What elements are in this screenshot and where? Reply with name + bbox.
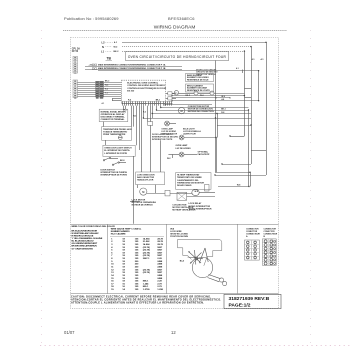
- svg-text:2498: 2498: [157, 274, 163, 277]
- svg-text:TANDA A FLOOR: TANDA A FLOOR: [137, 179, 154, 182]
- svg-text:LUZ DE HORNO: LUZ DE HORNO: [176, 148, 192, 150]
- wire N to right bus: [122, 46, 251, 48]
- svg-text:2498: 2498: [157, 260, 163, 263]
- title rule: [63, 30, 287, 32]
- svg-text:(25-78): (25-78): [143, 252, 150, 254]
- relay board note box: [99, 109, 128, 121]
- svg-text:DE AIR CHAUD: DE AIR CHAUD: [177, 184, 192, 187]
- svg-text:INTERRUPTOR DE PUERTA: INTERRUPTOR DE PUERTA: [101, 171, 128, 174]
- latch arrowheads: [188, 251, 190, 253]
- door switch SW1 symbol: [105, 158, 110, 160]
- svg-text:BK BLACK/NEGRO/NOIR: BK BLACK/NEGRO/NOIR: [72, 229, 98, 232]
- harness wires to EOC board: [104, 82, 122, 84]
- svg-text:THERMOSTAT DE MONITOR: THERMOSTAT DE MONITOR: [177, 181, 204, 184]
- svg-text:MOTEUR DE CONVECTION: MOTEUR DE CONVECTION: [188, 111, 214, 113]
- latch arm lines: [189, 252, 202, 264]
- svg-text:BK-1: BK-1: [156, 100, 160, 102]
- bus drop at x258: [258, 71, 260, 101]
- svg-text:COOLING FAN: COOLING FAN: [172, 203, 186, 206]
- broil element label box: [186, 84, 214, 92]
- inline connector bank column 2: [100, 81, 104, 97]
- svg-text:2498: 2498: [157, 277, 163, 280]
- wire stub box2 to box3: [105, 140, 107, 145]
- svg-text:Y YELLOW/AMARILLO/JAUNE: Y YELLOW/AMARILLO/JAUNE: [72, 237, 103, 240]
- svg-text:5857: 5857: [157, 250, 163, 252]
- svg-text:5857: 5857: [157, 269, 163, 271]
- wires lower middle verticals: [141, 156, 143, 172]
- svg-text:14-964: 14-964: [143, 237, 150, 240]
- harness wires from CPL strip: [78, 82, 96, 84]
- revision info box: [224, 294, 281, 308]
- svg-text:OPTIONAL: OPTIONAL: [198, 151, 209, 154]
- svg-text:WIRING DIAGRAM: WIRING DIAGRAM: [154, 25, 196, 31]
- svg-text:BAJO SELECTOR: BAJO SELECTOR: [137, 176, 155, 179]
- wire neutral run to element circuit: [98, 70, 259, 72]
- svg-text:(25-78): (25-78): [143, 250, 150, 252]
- svg-text:CALENTAMIENTO DEL: CALENTAMIENTO DEL: [177, 179, 199, 182]
- low oven door latch box: [136, 172, 165, 185]
- wire comb to relay block row: [123, 106, 125, 110]
- svg-text:EL INTERRUP DE PUERTA: EL INTERRUP DE PUERTA: [104, 149, 130, 152]
- svg-text:2498: 2498: [157, 263, 163, 266]
- svg-text:BK-7: BK-7: [123, 110, 127, 112]
- svg-text:WIRE COLOR CODE/CODIGO DEL COL: WIRE COLOR CODE/CODIGO DEL COLOR: [72, 226, 116, 228]
- svg-text:TERMOSTATO DE SOBRE: TERMOSTATO DE SOBRE: [177, 176, 202, 179]
- connector strip P1 upper: [73, 57, 78, 74]
- svg-text:TEMPERATURE PROBE JACK: TEMPERATURE PROBE JACK: [103, 128, 132, 131]
- convection motor M1: [178, 107, 184, 113]
- latch lever V lines: [199, 248, 205, 263]
- svg-text:1-298: 1-298: [157, 289, 163, 291]
- svg-text:28-78: 28-78: [157, 238, 163, 240]
- mid vertical wires: [215, 61, 217, 173]
- lock motor wires: [147, 193, 165, 195]
- svg-text:(25-78): (25-78): [143, 255, 150, 257]
- oven lamp DL1 symbol: [165, 121, 170, 126]
- svg-text:INTERRUPTEUR DE PORTE: INTERRUPTEUR DE PORTE: [101, 175, 128, 177]
- oven lamp DL2: [179, 135, 184, 140]
- svg-text:PAGE:1/2: PAGE:1/2: [229, 303, 251, 309]
- svg-text:BK-2: BK-2: [114, 51, 120, 53]
- svg-text:21-562: 21-562: [143, 241, 150, 243]
- svg-text:W-8: W-8: [195, 191, 198, 193]
- svg-text:HILO CALIBRE: HILO CALIBRE: [111, 233, 126, 236]
- svg-text:MAIN INTERWIRING CONNECTOR/INT: MAIN INTERWIRING CONNECTOR/INTERWIRING C…: [98, 63, 166, 66]
- element R2 symbol: [194, 91, 198, 95]
- latch roller rod: [209, 275, 221, 279]
- EOC input wires lower: [112, 98, 121, 100]
- door switch SW2 symbol: [114, 163, 119, 165]
- svg-text:TOMA DE TERMOMETRO: TOMA DE TERMOMETRO: [103, 131, 128, 134]
- svg-text:(25-78): (25-78): [143, 269, 150, 271]
- svg-text:MOTEUR DE VERROU: MOTEUR DE VERROU: [132, 205, 154, 207]
- wire horizontal runs below comb: [143, 118, 215, 120]
- junction dots: [215, 97, 216, 98]
- svg-text:OVEN LAMP: OVEN LAMP: [176, 144, 189, 147]
- EOC output relay contacts: [168, 92, 172, 95]
- cooling fan relay box: [177, 192, 187, 200]
- outer dashed diagram border: [71, 38, 279, 309]
- svg-text:CPL 3A: CPL 3A: [72, 47, 80, 50]
- svg-text:CF 50: CF 50: [72, 51, 79, 53]
- svg-text:898-1: 898-1: [143, 281, 149, 283]
- svg-text:CONNECTEUR: CONNECTEUR: [246, 234, 260, 236]
- svg-text:RESISTANCE DE VOUTE: RESISTANCE DE VOUTE: [187, 89, 210, 92]
- svg-text:12: 12: [171, 330, 176, 335]
- lock motor M2: [140, 188, 147, 195]
- svg-text:M: M: [142, 190, 144, 194]
- latch pivot: [195, 257, 198, 260]
- svg-text:OVEN CIRCUIT//CIRCUITO DE HORN: OVEN CIRCUIT//CIRCUITO DE HORNO//CIRCUIT…: [128, 55, 227, 59]
- svg-text:2498: 2498: [157, 266, 163, 269]
- bus branch wires: [244, 88, 251, 90]
- svg-text:WIRE GAUGE TEMP C: WIRE GAUGE TEMP C CMA UL: [111, 227, 142, 230]
- svg-text:CONNECTOR TERMINAL: CONNECTOR TERMINAL: [101, 118, 126, 121]
- svg-text:L INTERRUP DE PORTE: L INTERRUP DE PORTE: [104, 153, 127, 155]
- svg-text:PRISE THERMOMETRE: PRISE THERMOMETRE: [103, 134, 126, 136]
- junction dots at wire crossings: [244, 50, 245, 51]
- svg-text:RESISTANCE DE SOLE: RESISTANCE DE SOLE: [187, 78, 209, 81]
- svg-text:ES 300: ES 300: [127, 90, 135, 92]
- legend band frame: [71, 224, 279, 226]
- svg-text:LOCK RELAY: LOCK RELAY: [189, 202, 202, 205]
- svg-text:Publication No : 5995480269: Publication No : 5995480269: [64, 16, 119, 21]
- svg-text:DISCONNECT TERMINAL: DISCONNECT TERMINAL: [101, 116, 126, 119]
- hi-temp thermostat box: [176, 173, 211, 190]
- svg-text:BK-3: BK-3: [105, 80, 109, 82]
- wire stub box1 to box2: [103, 122, 105, 127]
- pink tractor-feed guide left: [41, 30, 43, 344]
- svg-text:FACULTATIF: FACULTATIF: [198, 153, 211, 156]
- svg-text:CONNECTEUR: CONNECTEUR: [264, 234, 278, 236]
- svg-text:M: M: [181, 109, 183, 113]
- oven lamp DL3 optional: [179, 152, 184, 157]
- svg-text:POSITION SHOWN: POSITION SHOWN: [170, 236, 188, 238]
- svg-text:4-1: 4-1: [102, 102, 105, 105]
- interwiring connector row 2 +15: [92, 68, 94, 70]
- svg-text:ATTENTION:COUPLE L ALIMENTATIO: ATTENTION:COUPLE L ALIMENTATION AVANT D …: [71, 302, 204, 305]
- element wires: [172, 93, 174, 95]
- svg-text:MAIN INTERWIRING CONNECTOR/INT: MAIN INTERWIRING CONNECTOR/INTERWIRING C…: [98, 67, 166, 70]
- svg-text:(25-78): (25-78): [143, 247, 150, 249]
- svg-text:BFES368EC6: BFES368EC6: [168, 16, 195, 21]
- svg-text:1-244: 1-244: [143, 282, 149, 285]
- lamp wiring: [169, 123, 176, 125]
- svg-text:5857: 5857: [157, 272, 163, 274]
- svg-text:14-964: 14-964: [143, 243, 150, 246]
- svg-text:W-5: W-5: [133, 116, 136, 118]
- svg-text:W-8: W-8: [221, 96, 224, 98]
- bus wire L1 vertical: [244, 51, 246, 136]
- svg-text:DOOR LATCH SWITCH: DOOR LATCH SWITCH: [152, 133, 174, 136]
- svg-text:BK-1: BK-1: [221, 108, 225, 110]
- cooling fan motor M3: [192, 189, 199, 195]
- lock switch contact box: [165, 190, 170, 196]
- oven door light switch box: [103, 145, 135, 156]
- pink tractor-feed guide right: [310, 30, 312, 344]
- oven circuit title box: [126, 52, 229, 61]
- svg-text:TB: TB: [107, 56, 112, 60]
- svg-text:4-1: 4-1: [236, 67, 239, 70]
- svg-text:28-78: 28-78: [157, 244, 163, 246]
- svg-text:R-8: R-8: [221, 112, 224, 114]
- svg-text:BK-8: BK-8: [120, 160, 124, 162]
- electronic oven control U1 dashed box: [121, 80, 165, 103]
- svg-text:318271939 REV:B: 318271939 REV:B: [229, 296, 270, 302]
- connector block B: [262, 239, 276, 265]
- svg-text:BLA: BLA: [180, 260, 185, 263]
- svg-text:2087-1: 2087-1: [143, 258, 150, 260]
- relay K1: [148, 122, 153, 126]
- latch cam circle: [192, 257, 212, 277]
- svg-text:4-8: 4-8: [221, 98, 224, 101]
- bus wire L2 vertical: [266, 42, 268, 175]
- pink tractor-feed guide bottom: [40, 345, 350, 347]
- svg-text:W-8: W-8: [237, 185, 240, 187]
- temperature probe jack box: [102, 127, 132, 141]
- EOC terminal comb: [121, 103, 172, 105]
- svg-text:W WHITE/BLANCO/BLANC: W WHITE/BLANCO/BLANC: [72, 232, 100, 235]
- connector strip P1 lower: [73, 80, 78, 98]
- svg-text:899-1: 899-1: [143, 286, 149, 288]
- svg-text:01/07: 01/07: [64, 330, 75, 335]
- svg-text:(25-78): (25-78): [143, 272, 150, 274]
- svg-text:1-2799: 1-2799: [143, 289, 150, 291]
- svg-text:BR BROWN/CAFE/BRUN: BR BROWN/CAFE/BRUN: [72, 245, 98, 248]
- latch roller 2: [223, 281, 227, 285]
- thermal fuse box: [205, 185, 210, 192]
- latch roller 1: [219, 278, 223, 282]
- svg-text:W/A: W/A: [170, 227, 174, 230]
- wires lower middle: [130, 201, 140, 203]
- bus wire N vertical: [251, 47, 253, 164]
- svg-text:LAMPE FOUR: LAMPE FOUR: [183, 133, 196, 136]
- svg-text:BL BLUE/AZUL/BLEU: BL BLUE/AZUL/BLEU: [72, 240, 94, 243]
- svg-text:R-6: R-6: [143, 112, 146, 114]
- svg-text:5857: 5857: [157, 247, 163, 249]
- svg-text:W-2: W-2: [167, 158, 170, 160]
- bake element R1 symbol: [174, 91, 178, 95]
- wire L2 to right bus: [122, 42, 266, 44]
- door latch assembly sketch: [178, 240, 222, 266]
- svg-text:OPERATION AL DISPLAY: OPERATION AL DISPLAY: [101, 113, 126, 116]
- probe jack symbol: [118, 136, 122, 140]
- svg-text:HI-TEMP THERMOSTAT: HI-TEMP THERMOSTAT: [177, 174, 200, 177]
- inline connector bank column 1: [96, 81, 99, 97]
- svg-text:INTERRUP DE PORTE: INTERRUP DE PORTE: [152, 139, 173, 141]
- svg-text:GY GRAY/GRIS/GRIS: GY GRAY/GRIS/GRIS: [72, 247, 94, 250]
- svg-text:MICRO INTERRUPTEUR: MICRO INTERRUPTEUR: [189, 208, 212, 210]
- connector block A: [245, 240, 260, 260]
- element R3 symbol: [210, 91, 214, 95]
- svg-text:5857: 5857: [157, 255, 163, 257]
- bake element label box: [186, 74, 214, 82]
- wire L1 to right bus: [122, 51, 244, 53]
- svg-text:28-78: 28-78: [157, 241, 163, 243]
- svg-text:N: N: [102, 45, 104, 49]
- svg-text:5857: 5857: [157, 252, 163, 254]
